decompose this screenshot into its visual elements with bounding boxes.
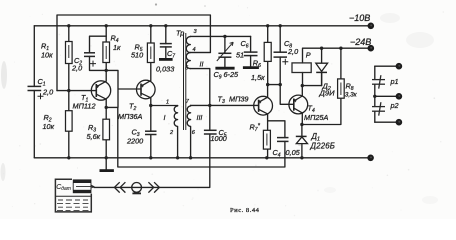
svg-text:Т3: Т3 [218, 95, 225, 106]
svg-text:Тр: Тр [176, 29, 184, 38]
svg-text:6: 6 [192, 130, 196, 136]
svg-text:Д9И: Д9И [319, 88, 336, 97]
svg-text:6-25: 6-25 [224, 70, 240, 79]
svg-text:I: I [164, 115, 166, 122]
svg-text:Т2: Т2 [129, 102, 136, 113]
svg-text:R8: R8 [346, 82, 354, 93]
svg-text:С4: С4 [273, 148, 281, 159]
svg-text:2200: 2200 [126, 137, 143, 146]
svg-text:С6: С6 [241, 39, 249, 50]
svg-text:Рис. 8.44: Рис. 8.44 [230, 207, 260, 214]
svg-text:5,6к: 5,6к [87, 132, 101, 141]
svg-text:1000: 1000 [211, 134, 227, 143]
svg-text:1,5к: 1,5к [251, 73, 265, 82]
svg-text:1: 1 [166, 100, 169, 106]
svg-text:−24В: −24В [350, 37, 371, 47]
svg-text:510: 510 [131, 51, 143, 60]
svg-text:−10В: −10В [349, 13, 370, 23]
svg-text:0,05: 0,05 [286, 148, 301, 157]
svg-text:МП39: МП39 [229, 95, 248, 104]
svg-text:р2: р2 [390, 101, 399, 110]
svg-text:4: 4 [193, 47, 196, 53]
svg-text:10к: 10к [41, 51, 53, 60]
svg-text:МП112: МП112 [73, 102, 96, 111]
svg-text:7: 7 [186, 99, 190, 105]
svg-text:10к: 10к [43, 122, 55, 131]
svg-text:2,0: 2,0 [71, 64, 82, 73]
svg-text:Р: Р [306, 51, 311, 60]
svg-text:3: 3 [194, 29, 198, 35]
svg-text:III: III [197, 115, 203, 122]
svg-text:0,033: 0,033 [156, 65, 174, 74]
svg-text:С9: С9 [214, 70, 222, 81]
svg-text:3,3к: 3,3к [345, 92, 358, 99]
svg-text:С7: С7 [167, 49, 175, 60]
svg-text:МП25А: МП25А [304, 113, 328, 122]
svg-text:2,0: 2,0 [42, 88, 53, 97]
svg-text:2,0: 2,0 [287, 47, 298, 56]
svg-text:МП36А: МП36А [118, 112, 142, 121]
svg-text:Сдат: Сдат [56, 184, 71, 192]
svg-text:2: 2 [169, 130, 174, 136]
svg-text:1к: 1к [113, 43, 121, 52]
svg-text:II: II [200, 62, 204, 69]
svg-text:R7*: R7* [250, 123, 261, 134]
svg-text:р1: р1 [390, 77, 399, 86]
svg-text:С1: С1 [38, 77, 46, 88]
svg-text:R6: R6 [253, 59, 261, 70]
svg-text:51: 51 [236, 51, 244, 60]
svg-text:Д226Б: Д226Б [310, 141, 336, 150]
